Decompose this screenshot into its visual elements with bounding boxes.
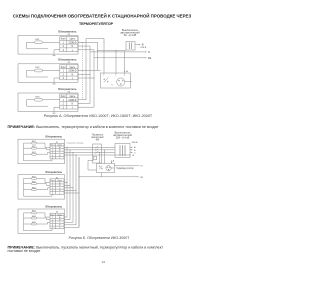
svg-text:Обогреватель: Обогреватель: [58, 30, 77, 34]
svg-text:ТС: ТС: [111, 84, 114, 86]
svg-text:Конт: Конт: [61, 66, 67, 69]
svg-text:220В,Ф: 220В,Ф: [68, 70, 76, 73]
svg-text:Рисунок Б. Обогреватели ИКО-30: Рисунок Б. Обогреватели ИКО-3000Т: [69, 236, 131, 240]
svg-text:Х1: Х1: [56, 142, 58, 144]
svg-text:С: С: [134, 152, 136, 154]
svg-text:Цепь: Цепь: [70, 95, 76, 98]
svg-text:N: N: [72, 103, 74, 106]
svg-text:~220 В: ~220 В: [139, 47, 147, 49]
svg-text:⏚: ⏚: [71, 105, 73, 109]
svg-text:А: А: [126, 70, 128, 73]
svg-text:Цепь: Цепь: [70, 38, 76, 41]
svg-text:Х3: Х3: [56, 212, 58, 214]
svg-text:А: А: [113, 159, 115, 162]
svg-text:5А ~0,4 кВ: 5А ~0,4 кВ: [124, 33, 137, 37]
svg-text:Обогреватель: Обогреватель: [58, 58, 77, 62]
svg-text:5: 5: [52, 193, 53, 195]
svg-text:ЕК3: ЕК3: [36, 96, 41, 98]
svg-text:Конт: Конт: [61, 95, 67, 98]
svg-text:Стационарная проводка: Стационарная проводка: [67, 143, 84, 145]
svg-text:3: 3: [124, 75, 125, 77]
svg-text:Обогреватель: Обогреватель: [45, 205, 62, 208]
svg-text:А: А: [134, 146, 136, 149]
svg-text:N: N: [72, 45, 74, 48]
svg-text:СХЕМЫ ПОДКЛЮЧЕНИЯ ОБОГРЕВАТЕЛЕ: СХЕМЫ ПОДКЛЮЧЕНИЯ ОБОГРЕВАТЕЛЕЙ К СТАЦИО…: [13, 12, 192, 19]
svg-text:⏚: ⏚: [71, 48, 73, 52]
svg-text:кМ: кМ: [140, 166, 143, 168]
svg-text:N: N: [132, 155, 134, 157]
svg-text:2: 2: [115, 75, 116, 77]
svg-text:ТЕРМОРЕГУЛЯТОР: ТЕРМОРЕГУЛЯТОР: [79, 22, 114, 26]
svg-text:ЕК2: ЕК2: [36, 67, 41, 69]
svg-text:25А ~0,4 кВ: 25А ~0,4 кВ: [116, 136, 130, 139]
svg-text:N: N: [148, 51, 150, 54]
svg-text:КМ: КМ: [96, 138, 99, 141]
svg-text:Конт: Конт: [61, 38, 67, 41]
svg-text:5: 5: [52, 227, 53, 229]
svg-text:~380 В: ~380 В: [131, 142, 138, 144]
svg-text:Цепь: Цепь: [70, 66, 76, 69]
svg-text:⏚: ⏚: [71, 76, 73, 80]
svg-text:220В,Ф: 220В,Ф: [68, 41, 76, 44]
svg-text:Обогреватель: Обогреватель: [45, 171, 62, 174]
svg-text:Ф: Ф: [142, 44, 144, 47]
svg-text:PE: PE: [148, 57, 152, 60]
svg-text:Обогреватель: Обогреватель: [58, 87, 77, 91]
svg-text:1: 1: [103, 75, 104, 77]
svg-text:ПРИМЕЧАНИЕ: Выключатель, термо: ПРИМЕЧАНИЕ: Выключатель, терморегулятор …: [8, 125, 159, 129]
svg-text:Рисунок А. Обогреватели ИКО-10: Рисунок А. Обогреватели ИКО-1000Т; ИКО-1…: [44, 114, 153, 118]
svg-text:Обогреватель: Обогреватель: [45, 136, 62, 139]
svg-text:5: 5: [52, 157, 53, 159]
svg-text:ЕК1: ЕК1: [36, 39, 41, 41]
svg-text:220В,Ф: 220В,Ф: [68, 99, 76, 102]
svg-text:PE: PE: [140, 177, 143, 179]
svg-text:N: N: [72, 73, 74, 76]
svg-text:Терморегулятор: Терморегулятор: [116, 168, 134, 170]
svg-text:13: 13: [102, 260, 106, 264]
svg-text:Х2: Х2: [56, 177, 58, 179]
svg-text:поставки не входят: поставки не входят: [8, 249, 41, 253]
